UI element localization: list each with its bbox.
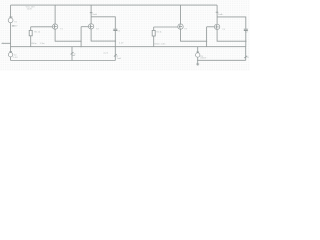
lower left rail — [11, 60, 116, 62]
current source I3 link — [245, 47, 247, 61]
current tick on Q4 collector — [216, 11, 219, 13]
voltage source V1 — [8, 18, 13, 23]
transistor Q4 — [216, 5, 218, 24]
svg-text:R2 1k: R2 1k — [157, 31, 162, 33]
current source I1 link — [71, 47, 73, 61]
current tick on Q2 collector — [90, 12, 93, 14]
wire R2 node to Q3 base — [154, 26, 178, 28]
ground at V3 — [196, 63, 199, 65]
wire R1 node to Q1 base — [31, 26, 53, 28]
capacitor C1 — [113, 28, 117, 30]
svg-text:1.5V: 1.5V — [13, 57, 18, 59]
voltage source V3 — [197, 47, 199, 53]
svg-text:15.0V: 15.0V — [27, 8, 33, 10]
svg-text:-12V: -12V — [13, 25, 18, 27]
transistor Q1 — [54, 5, 56, 24]
junction dots — [10, 40, 247, 61]
svg-text:out 1: out 1 — [103, 52, 109, 55]
labels — [13, 6, 250, 60]
svg-text:2mA: 2mA — [218, 13, 223, 16]
wire node to Q4 base — [207, 26, 215, 28]
transistor Q2 — [90, 5, 92, 24]
current source I2 link — [114, 47, 116, 61]
svg-text:650m: 650m — [154, 44, 160, 46]
wire C2 bottom to mid rail — [245, 31, 247, 47]
wire Q2 emitter — [91, 29, 115, 41]
wire collector tap to C2 — [217, 17, 246, 29]
resistor R2 — [153, 27, 155, 30]
resistor R1 — [30, 27, 32, 31]
transistor Q3 — [180, 5, 182, 24]
wire collector tap to C1 — [91, 17, 115, 29]
wire Q4 emitter — [217, 30, 246, 42]
wire left vertical upper — [10, 5, 12, 18]
grid dots — [0, 0, 250, 71]
svg-text:1.3m: 1.3m — [161, 44, 166, 46]
svg-text:2mA: 2mA — [92, 13, 97, 16]
capacitor C2 — [244, 28, 248, 30]
svg-text:1.3m: 1.3m — [40, 43, 45, 45]
lower right rail — [198, 59, 246, 61]
voltage source V2 — [10, 47, 12, 53]
wire node to Q2 base — [81, 26, 88, 28]
svg-text:2.1V: 2.1V — [119, 43, 124, 45]
top rail VCC — [11, 4, 218, 6]
ground reference arrow left — [3, 42, 11, 44]
wire C1 bottom to mid rail — [114, 31, 116, 47]
svg-text:200mV: 200mV — [200, 58, 207, 60]
mid rail — [11, 46, 246, 48]
wire vertical x81 — [80, 27, 82, 47]
wire Q3 emitter — [181, 29, 207, 41]
svg-text:650m: 650m — [31, 43, 37, 45]
wire Q1 emitter — [55, 29, 81, 41]
wire vertical x206 — [206, 27, 208, 47]
wire V1 to mid rail — [10, 23, 12, 47]
svg-text:R1 1k: R1 1k — [34, 31, 41, 33]
